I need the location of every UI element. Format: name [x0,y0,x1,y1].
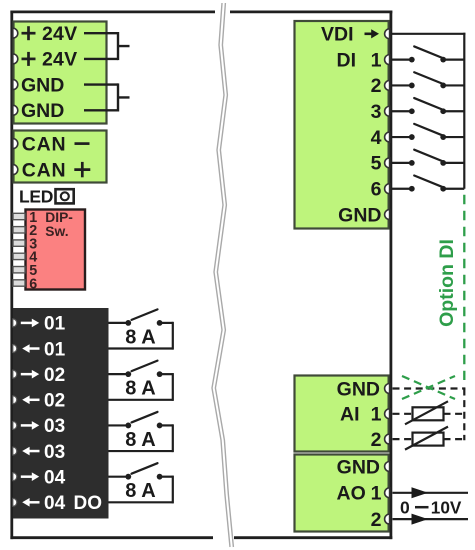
svg-text:01: 01 [44,314,66,335]
svg-text:5: 5 [371,153,382,175]
svg-text:0: 0 [400,498,410,518]
svg-text:24V: 24V [42,23,77,45]
svg-text:GND: GND [338,204,381,226]
svg-text:CAN: CAN [22,159,67,181]
svg-text:1: 1 [371,404,382,426]
svg-text:8 A: 8 A [125,429,155,451]
svg-text:2: 2 [371,509,382,531]
svg-text:02: 02 [44,391,65,412]
svg-text:02: 02 [44,365,65,386]
svg-text:AO: AO [337,483,366,505]
svg-text:04: 04 [44,467,66,488]
svg-text:Sw.: Sw. [45,224,68,239]
svg-text:10V: 10V [431,498,462,518]
svg-text:GND: GND [337,378,380,400]
svg-text:1: 1 [371,483,382,505]
svg-text:04: 04 [44,493,66,514]
svg-text:01: 01 [44,339,66,360]
svg-text:CAN: CAN [22,133,67,155]
svg-text:Option DI: Option DI [436,239,458,327]
svg-text:6: 6 [371,179,382,201]
svg-text:VDI: VDI [321,24,354,46]
svg-text:DO: DO [74,493,103,514]
svg-text:03: 03 [44,442,65,463]
svg-text:2: 2 [371,75,382,97]
svg-text:24V: 24V [42,49,77,71]
svg-text:2: 2 [371,429,382,451]
svg-text:4: 4 [371,127,382,149]
svg-text:3: 3 [371,101,382,123]
svg-text:DI: DI [337,49,357,71]
svg-text:8 A: 8 A [125,378,155,400]
svg-text:03: 03 [44,416,65,437]
svg-text:6: 6 [29,276,37,292]
svg-text:1: 1 [371,49,382,71]
svg-text:8 A: 8 A [125,480,155,502]
svg-text:AI: AI [340,404,360,426]
svg-text:GND: GND [21,100,64,122]
svg-text:8 A: 8 A [125,326,155,348]
svg-text:LED: LED [19,187,53,207]
svg-text:GND: GND [21,74,64,96]
svg-text:GND: GND [337,456,380,478]
